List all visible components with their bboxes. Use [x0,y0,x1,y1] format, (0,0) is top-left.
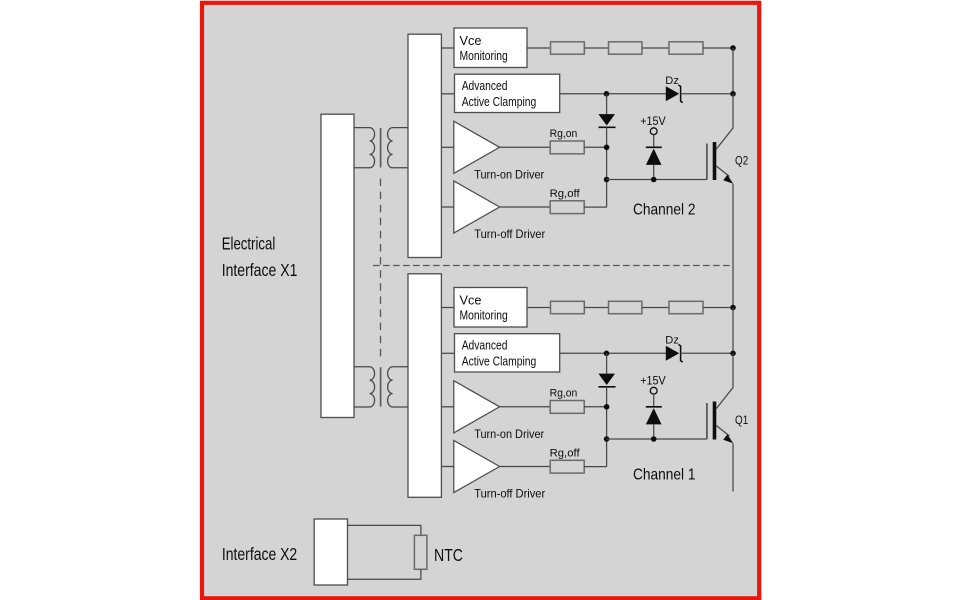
svg-text:Advanced: Advanced [462,338,508,353]
wire gate to IGBT (channel 2) [607,179,707,181]
svg-text:Dz: Dz [665,334,679,346]
wire turn-off amp to Rg,off (channel 2) [500,206,551,208]
svg-text:Advanced: Advanced [462,78,508,93]
node collector clamp (channel 1) [730,351,736,357]
wire gate branch vertical (channel 1) [606,387,608,467]
resistor Rg,off (channel 2) [550,201,584,214]
driver block channel 1 (secondary side ASIC) [408,274,441,498]
wire Rg,off to gate branch (channel 1) [584,466,606,468]
connector block X2 [314,519,347,585]
svg-text:Turn-off Driver: Turn-off Driver [474,487,545,501]
IGBT Q2 emitter lead with arrow [716,166,733,308]
amplifier Turn-on Driver (channel 2) [454,121,500,173]
IGBT Q1 emitter lead with arrow [716,426,733,492]
resistor NTC [414,535,427,569]
svg-text:Channel 2: Channel 2 [633,202,696,219]
svg-text:Q2: Q2 [735,153,748,167]
wire X2 to NTC top [348,525,421,535]
svg-text:Interface X1: Interface X1 [222,260,298,280]
svg-text:Vce: Vce [460,33,482,48]
junction gate wire (channel 1) [604,436,610,442]
transformer T2 (channel 1) primary winding [354,367,375,407]
connector block X1 (electrical interface) [321,114,354,417]
wire driver-block to turn-on amp (channel 2) [441,146,453,148]
wire Rg,off to gate branch (channel 2) [584,206,606,208]
IGBT Q2 gate plate [706,144,708,180]
svg-text:Q1: Q1 [735,413,748,427]
wire Vce box to resistor chain (channel 2) [527,47,551,49]
wire clamp junction down (channel 2) [606,94,608,115]
amplifier Turn-off Driver (channel 1) [454,440,500,492]
IGBT Q1 body bar [713,402,717,440]
junction Rg,on/gate (channel 1) [604,404,610,410]
svg-text:Interface X2: Interface X2 [222,544,297,564]
resistor Rg,on (channel 1) [550,401,584,414]
svg-text:Active Clamping: Active Clamping [462,94,537,109]
diode gate clamp to +15V (pointing up) (channel 1) [646,406,662,408]
wire +15V terminal to diode (channel 1) [653,394,655,407]
resistor Rg,on (channel 2) [550,141,584,154]
junction Rg,on/gate (channel 2) [604,145,610,151]
junction clamp/gate-branch (channel 2) [604,91,610,97]
wire driver-block to turn-off amp (channel 1) [441,466,453,468]
svg-text:Rg,on: Rg,on [550,388,578,400]
wire driver-block to clamping box (channel 1) [441,352,454,354]
wire Rg,on to gate branch (channel 2) [584,146,606,148]
wire turn-on amp to Rg,on (channel 1) [500,406,551,408]
wire driver-block to Vce box (channel 1) [441,307,454,309]
svg-text:Vce: Vce [460,293,482,308]
wire collector rail (channel 1) [732,308,734,354]
wire R1-R2 (channel 2) [584,47,608,49]
resistor chain R1 (channel 1) [551,301,585,313]
wire R3 to collector node (channel 1) [703,307,733,309]
wire driver-block to turn-on amp (channel 1) [441,406,453,408]
resistor chain R3 (channel 1) [669,301,703,313]
block Vce Monitoring (channel 1) [454,288,527,328]
resistor Rg,off (channel 1) [550,460,584,473]
node collector clamp (channel 2) [730,91,736,97]
svg-text:+15V: +15V [640,114,665,128]
wire R2-R3 (channel 1) [642,307,669,309]
IGBT Q1 gate plate [706,403,708,439]
zener diode Dz (channel 1) [666,346,679,361]
svg-text:Active Clamping: Active Clamping [462,353,537,368]
diode gate clamp to +15V (pointing up) (channel 2) [646,146,662,148]
junction clamp/gate-branch (channel 1) [604,351,610,357]
wire NTC bottom to X2 [348,569,421,579]
zener diode Dz (channel 2) [666,86,679,101]
wire clamping box to zener Dz (channel 1) [560,352,667,354]
svg-text:Channel 1: Channel 1 [633,467,696,484]
svg-text:+15V: +15V [640,374,665,388]
wire turn-on amp to Rg,on (channel 2) [500,146,551,148]
resistor chain R1 (channel 2) [551,42,585,54]
transformer T2 (channel 1) core [380,367,382,406]
terminal +15V (channel 1) [650,387,657,394]
svg-text:Rg,on: Rg,on [550,128,578,140]
driver block channel 2 (secondary side ASIC) [408,34,441,257]
diode clamp-feedback (pointing down) (channel 1) [598,374,615,385]
svg-text:Rg,off: Rg,off [550,188,581,200]
IGBT Q1 collector lead [716,353,733,409]
block Advanced Active Clamping (channel 1) [455,334,560,372]
wire driver-block to clamping box (channel 2) [441,93,454,95]
block Vce Monitoring (channel 2) [454,28,527,68]
wire Dz to collector node (channel 1) [681,352,733,354]
svg-text:Rg,off: Rg,off [550,448,581,460]
resistor chain R2 (channel 2) [609,42,642,54]
wire gate branch vertical (channel 2) [606,127,608,207]
junction clamp diode/gate (channel 1) [651,436,657,442]
svg-text:NTC: NTC [434,545,463,565]
wire Dz to collector node (channel 2) [681,93,733,95]
terminal +15V (channel 2) [650,128,657,135]
amplifier Turn-on Driver (channel 1) [454,381,500,433]
svg-text:Electrical: Electrical [222,234,276,254]
wire driver-block to turn-off amp (channel 2) [441,206,453,208]
diode clamp-feedback (pointing down) (channel 2) [598,114,615,125]
svg-text:Turn-off Driver: Turn-off Driver [474,227,545,241]
resistor chain R2 (channel 1) [609,301,642,313]
transformer T2 (channel 1) secondary winding [388,367,408,407]
svg-text:Monitoring: Monitoring [460,308,508,323]
svg-text:Monitoring: Monitoring [460,48,508,63]
IGBT Q2 collector lead [716,94,733,150]
red border frame with gray panel background [202,3,759,599]
transformer T1 (channel 2) core [380,128,382,167]
wire Rg,on to gate branch (channel 1) [584,406,606,408]
wire R2-R3 (channel 2) [642,47,669,49]
transformer T1 (channel 2) primary winding [354,128,375,168]
resistor chain R3 (channel 2) [669,42,703,54]
dashed isolation line vertical [380,179,382,360]
wire clamp junction down (channel 1) [606,353,608,374]
svg-text:Dz: Dz [665,75,679,87]
wire clamp diode to gate wire (channel 1) [653,424,655,439]
wire clamp diode to gate wire (channel 2) [653,165,655,180]
wire clamping box to zener Dz (channel 2) [560,93,667,95]
dashed channel separator horizontal [373,265,731,267]
svg-text:Turn-on Driver: Turn-on Driver [474,167,544,181]
wire collector rail (channel 2) [732,48,734,94]
node collector sense (channel 2) [730,45,736,51]
block Advanced Active Clamping (channel 2) [455,74,560,112]
amplifier Turn-off Driver (channel 2) [454,181,500,233]
junction gate wire (channel 2) [604,177,610,183]
svg-text:Turn-on Driver: Turn-on Driver [474,427,544,441]
wire gate to IGBT (channel 1) [607,438,707,440]
wire Vce box to resistor chain (channel 1) [527,307,551,309]
node collector sense (channel 1) [730,305,736,311]
wire driver-block to Vce box (channel 2) [441,47,454,49]
transformer T1 (channel 2) secondary winding [388,128,408,168]
junction clamp diode/gate (channel 2) [651,177,657,183]
wire turn-off amp to Rg,off (channel 1) [500,466,551,468]
wire R3 to collector node (channel 2) [703,47,733,49]
wire R1-R2 (channel 1) [584,307,608,309]
wire +15V terminal to diode (channel 2) [653,135,655,148]
IGBT Q2 body bar [713,142,717,180]
